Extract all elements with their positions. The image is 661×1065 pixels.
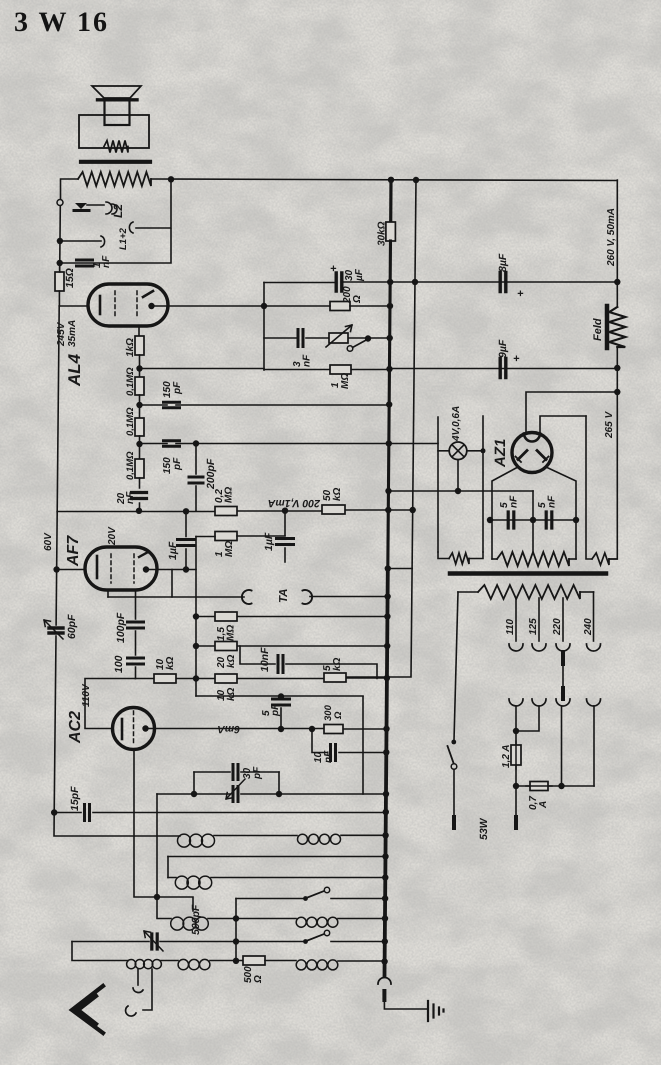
wire row6 <box>72 941 385 943</box>
switch row6 circle <box>324 930 329 935</box>
capacitor 150pF b <box>164 441 180 446</box>
wire ground link <box>384 1000 428 1009</box>
winding HT <box>492 552 576 566</box>
wire row4 <box>236 898 385 900</box>
wire left rail seg2 <box>59 206 62 270</box>
svg-text:245V: 245V <box>56 321 67 347</box>
svg-text:220: 220 <box>552 618 563 636</box>
rail2 lower <box>346 569 412 678</box>
label 150pF a <box>162 381 183 398</box>
junction anode/vert264 <box>261 303 267 309</box>
wire left rail corner <box>54 813 180 837</box>
wire row7 seg3 <box>210 960 243 962</box>
wire bus-rail2 y568 <box>388 568 412 570</box>
tube AZ1 envelope <box>512 433 552 473</box>
wire y786 line <box>516 785 594 787</box>
tap 240 lead <box>593 592 595 641</box>
svg-text:MΩ: MΩ <box>340 373 351 389</box>
tap 110 lead <box>515 598 517 641</box>
junction chain y368 <box>136 365 142 371</box>
svg-text:nF: nF <box>509 495 520 508</box>
label 300ohm <box>323 704 344 721</box>
wire AF7 grid caps <box>135 590 137 679</box>
wire x236 vert <box>235 919 237 962</box>
junction row7 bus <box>381 958 387 964</box>
switch row4 lever <box>305 891 324 899</box>
wire AF7 cathode line <box>57 569 85 571</box>
switch row4 circle <box>324 887 329 892</box>
wire AC2 grid drop <box>134 750 193 912</box>
junction y444 bus <box>386 440 392 446</box>
coil L1+2 arc lower <box>101 236 105 247</box>
label 125 <box>528 618 539 635</box>
junction row6 bus <box>382 938 388 944</box>
switch 53W lever <box>448 746 454 763</box>
resistor 01M a <box>135 377 144 395</box>
wire rail to AL4 <box>59 305 88 307</box>
tube AC2 anode node <box>142 725 148 731</box>
loudspeaker basket bar <box>98 98 138 101</box>
svg-text:AC2: AC2 <box>67 711 84 744</box>
label 01M c <box>125 451 136 480</box>
junction y678 x196 <box>193 675 199 681</box>
junction y617 bus <box>384 613 390 619</box>
coil row7 c <box>296 960 338 970</box>
svg-text:+: + <box>330 263 337 275</box>
tube AL4 envelope <box>88 284 168 326</box>
wire antenna lead2 <box>143 969 152 1010</box>
junction y511 bus <box>385 507 391 513</box>
svg-text:8µF: 8µF <box>497 253 509 272</box>
output transformer box <box>79 115 149 148</box>
label 10kohm a <box>155 656 176 670</box>
svg-text:L1+2: L1+2 <box>118 227 129 250</box>
svg-text:Ω: Ω <box>253 975 264 984</box>
junction anode x186 <box>183 566 189 572</box>
svg-text:Ω: Ω <box>352 295 363 304</box>
capacitor 30pF <box>233 765 238 780</box>
label 150pF b <box>162 457 183 474</box>
svg-text:Feld: Feld <box>592 318 604 341</box>
output transformer primary winding <box>78 172 151 186</box>
resistor 01M b <box>135 418 144 436</box>
resistor 1Mohm AF7 <box>215 532 237 541</box>
loudspeaker cone <box>92 86 141 98</box>
junction left rail y241 <box>57 238 63 244</box>
wire 1M line <box>196 535 285 538</box>
wire AZ1 fil right <box>540 416 586 434</box>
wire wiper link <box>87 204 104 206</box>
wire y491 line <box>389 490 534 492</box>
wire y444 line <box>140 443 389 445</box>
junction chain y510 <box>136 508 142 514</box>
resistor 500ohm <box>243 956 265 965</box>
svg-text:35mA: 35mA <box>67 320 78 347</box>
junction anode x281 <box>278 726 284 732</box>
socket hook 110 <box>509 699 523 706</box>
svg-text:kΩ: kΩ <box>332 487 343 501</box>
junction right rail y392 <box>614 389 620 395</box>
capacitor 8uF <box>500 273 506 292</box>
svg-text:125: 125 <box>528 618 539 635</box>
junction y511 rail2 <box>410 507 416 513</box>
junction y369 rail right <box>614 365 620 371</box>
capacitor 1uF a <box>178 540 195 546</box>
wire y617 line <box>196 616 387 618</box>
junction y794 bus <box>383 791 389 797</box>
tap 220 lead <box>562 598 564 641</box>
wire switch53 lower <box>453 770 455 817</box>
wire 30pF loop sides <box>194 772 279 794</box>
tube AF7 grid2 dashed <box>133 554 135 583</box>
label 15ohm <box>64 268 76 288</box>
coil row5 b <box>296 917 338 927</box>
wire left rail mid <box>57 306 59 512</box>
junction y306 bus <box>387 303 393 309</box>
bus upper segment <box>389 180 392 222</box>
antenna symbol <box>72 986 103 1033</box>
socket hook 220 <box>556 699 570 706</box>
junction y369 bus <box>386 366 392 372</box>
svg-text:100: 100 <box>113 655 125 673</box>
tube AF7 cathode <box>96 556 99 578</box>
tube AL4 cathode <box>99 296 102 314</box>
label 8uF plus <box>517 288 524 300</box>
svg-text:MΩ: MΩ <box>224 487 235 503</box>
junction lamp right <box>481 448 486 453</box>
label 3nF <box>292 354 313 367</box>
fuse 0.7A <box>526 782 552 791</box>
svg-text:200pF: 200pF <box>205 458 217 490</box>
wire chain seg2 <box>139 395 141 418</box>
socket hook 240 <box>587 699 601 706</box>
jack TA left <box>242 590 252 604</box>
label 5nF b <box>537 495 558 508</box>
coil L2 arcs <box>106 202 117 214</box>
svg-text:L2: L2 <box>111 204 125 218</box>
wire right rail lower <box>609 392 617 559</box>
wire chain seg3 <box>139 436 141 459</box>
label 100pF <box>115 612 127 643</box>
capacitor 5nF a <box>508 512 514 528</box>
junction rail2 y282 <box>412 279 418 285</box>
wire right rail upper <box>616 180 618 307</box>
svg-text:TA: TA <box>278 589 290 603</box>
wire 200pF drop <box>195 444 197 512</box>
coil row5 <box>171 917 209 930</box>
label 245V <box>56 321 67 347</box>
wire 10nF b line <box>312 729 386 753</box>
label 15pF <box>69 786 81 811</box>
wire y511 line <box>57 510 388 512</box>
label 35mA <box>67 320 78 347</box>
junction y338 wiper <box>365 335 371 341</box>
resistor 5kohm <box>324 673 346 682</box>
svg-text:A: A <box>538 801 549 809</box>
capacitor 150pF a <box>164 402 180 408</box>
junction row7 x236 <box>233 958 239 964</box>
capacitor 15pF <box>85 805 90 821</box>
svg-text:30kΩ: 30kΩ <box>377 221 388 246</box>
switch row6 dot <box>303 939 308 944</box>
label AZ1 <box>492 439 509 468</box>
label 1kohm <box>125 338 136 357</box>
svg-text:nF: nF <box>302 354 313 367</box>
capacitor 3nF <box>298 330 303 347</box>
label 60pF <box>66 614 78 639</box>
junction y511 1uFa <box>183 508 189 514</box>
label 265V <box>604 411 615 439</box>
wire 1nF line <box>62 229 171 263</box>
svg-text:9µF: 9µF <box>497 339 509 358</box>
switch 53W circle <box>451 764 457 770</box>
svg-text:20V: 20V <box>107 526 118 546</box>
wire AF7 grid loop <box>108 570 172 598</box>
label 01M a <box>125 367 136 396</box>
label 12A <box>501 744 512 768</box>
label 260V 50mA <box>606 208 617 267</box>
junction y511 x285 <box>282 508 288 514</box>
wire screen line y282 <box>264 282 334 284</box>
tube AF7 plate mark <box>139 552 148 557</box>
tube AC2 envelope <box>113 708 155 750</box>
wire row3 right <box>168 877 385 879</box>
capacitor 100pF b <box>128 658 144 664</box>
svg-text:kΩ: kΩ <box>226 687 237 701</box>
label 10nF a <box>259 647 271 672</box>
junction y646 bus <box>384 643 390 649</box>
voltage plug wire <box>562 664 564 688</box>
label 1uF a <box>167 541 179 560</box>
antenna coil <box>127 960 162 969</box>
junction row6 x236 <box>233 938 239 944</box>
voltage plug lower <box>561 688 565 699</box>
label 9uF <box>497 339 509 358</box>
capacitor 1nF <box>77 260 93 266</box>
svg-text:MΩ: MΩ <box>224 541 235 557</box>
junction chain y444 <box>136 441 142 447</box>
label 8uF <box>497 253 509 272</box>
label AF7 <box>65 535 82 567</box>
tube AZ1 filament notch <box>524 434 540 442</box>
svg-text:µF: µF <box>354 268 365 282</box>
label 200pF <box>205 458 217 490</box>
wire fil winding lead <box>586 416 592 559</box>
label 5pF <box>261 703 281 717</box>
wire socket240 down <box>593 706 595 786</box>
wire row7 seg2 <box>161 960 178 962</box>
winding 4V <box>438 552 483 564</box>
coil row7 b <box>178 959 210 969</box>
junction y405 bus <box>386 401 392 407</box>
wire AC2 cathode link <box>85 679 136 729</box>
terminal circle <box>57 200 63 206</box>
wire rail 15ohm <box>58 263 60 306</box>
wire y368 line <box>140 368 265 370</box>
field coil core bar <box>605 306 610 348</box>
junction top rail / rail2 <box>413 177 419 183</box>
wire fuse to junction <box>515 765 517 786</box>
pot wiper triangle <box>75 203 87 209</box>
wire L coil to rail2 <box>136 180 171 228</box>
winding primary <box>458 585 594 599</box>
resistor 50kohm <box>322 505 345 514</box>
mains plug dash b <box>514 817 518 828</box>
label 01M b <box>125 407 136 436</box>
junction y444 200pF <box>193 440 199 446</box>
fuse 1.2A <box>511 741 521 769</box>
svg-text:1µF: 1µF <box>167 541 179 560</box>
svg-text:kΩ: kΩ <box>165 656 176 670</box>
coil L1+2 arc upper <box>129 222 133 233</box>
label 30pF <box>242 766 263 780</box>
wire mains lead2 <box>515 786 517 816</box>
wire wiper to line <box>353 339 369 348</box>
svg-text:500pF: 500pF <box>190 904 202 935</box>
junction y646 x196 <box>193 643 199 649</box>
junction y696 x281 <box>278 693 284 699</box>
label 110V <box>81 683 92 707</box>
trimmer arrow 60pF <box>44 620 63 639</box>
wire row5 <box>157 897 385 919</box>
junction chain y405 <box>136 402 142 408</box>
label 200V 1mA <box>268 497 321 509</box>
resistor 1kohm <box>135 336 144 355</box>
tube AF7 envelope <box>85 547 157 590</box>
wire row2-row3 corner <box>167 857 169 878</box>
junction row1 bus <box>382 832 388 838</box>
label TA <box>278 589 290 603</box>
svg-text:265 V: 265 V <box>604 411 615 439</box>
tap hook 125 <box>532 644 546 651</box>
capacitor 10nF b <box>331 745 336 761</box>
label 02M <box>214 487 235 503</box>
wire y491 to 5nF <box>532 491 534 520</box>
resistor 15M <box>215 612 237 621</box>
wire 5nF line <box>490 519 576 521</box>
junction right rail 8uF line <box>614 279 620 285</box>
wire socket220 down <box>561 706 563 786</box>
wire AZ1 anode right <box>547 468 576 560</box>
wire row1 right <box>341 834 386 836</box>
svg-text:10nF: 10nF <box>259 647 271 672</box>
wire y511 to rail2 <box>388 509 412 511</box>
svg-text:nF: nF <box>547 495 558 508</box>
pot wiper bar <box>74 209 89 212</box>
svg-text:Ω: Ω <box>333 711 344 720</box>
label AL4 <box>65 353 84 387</box>
wire 30pF bottom <box>157 793 386 795</box>
wire socket110 down <box>515 706 517 745</box>
label 20nF <box>116 491 136 505</box>
wire AC2 anode line <box>146 728 387 731</box>
wire 30pF top <box>194 771 279 773</box>
label 53W <box>478 817 490 840</box>
wire left rail lowest <box>54 636 56 813</box>
label 07A <box>528 796 549 810</box>
wire y646 line <box>196 645 387 647</box>
rail2 vertical <box>412 180 416 569</box>
tap hook 240 <box>587 644 601 651</box>
junction x157 y897 <box>154 894 160 900</box>
svg-text:60pF: 60pF <box>66 614 78 639</box>
wire 1uF b drop <box>284 511 286 562</box>
svg-text:3 W 16: 3 W 16 <box>14 7 109 38</box>
label 200ohm <box>342 286 363 304</box>
rheostat arrow <box>326 325 352 347</box>
winding rect fil <box>592 553 617 565</box>
wire y664 line <box>240 646 377 679</box>
svg-text:pF: pF <box>252 766 263 780</box>
resistor 1Mohm tone <box>330 365 351 374</box>
wire top rail y180 <box>151 179 617 181</box>
resistor 15ohm <box>55 272 64 291</box>
wire AL4 anode line <box>152 305 265 307</box>
tube AL4 anode plate <box>143 291 153 297</box>
junction row5 bus <box>382 915 388 921</box>
junction row2 bus <box>382 853 388 859</box>
svg-text:pF: pF <box>270 703 281 717</box>
svg-text:kΩ: kΩ <box>332 657 343 671</box>
label 110 <box>505 619 516 635</box>
svg-text:pF: pF <box>172 381 183 395</box>
tap hook 110 <box>509 644 523 651</box>
junction 5nF right <box>573 517 579 523</box>
resistor 10kohm b <box>215 674 237 683</box>
resistor 01M c <box>135 459 144 478</box>
junction y491 lamp <box>455 488 461 494</box>
svg-text:60V: 60V <box>43 532 54 551</box>
wire 5nF center tap <box>532 520 534 552</box>
junction 5nF left <box>487 517 493 523</box>
label L2 <box>111 204 125 218</box>
capacitor 20nF <box>132 493 147 499</box>
label 100 <box>113 655 125 673</box>
junction 30pF left <box>191 791 197 797</box>
junction y752 bus <box>383 749 389 755</box>
wire chain seg1 <box>139 355 141 377</box>
junction y282 bus <box>387 279 393 285</box>
svg-text:4V,0,6A: 4V,0,6A <box>451 406 462 442</box>
jack antenna b <box>126 1006 136 1016</box>
label 20V <box>107 526 118 546</box>
bus bottom connector arc <box>378 978 391 984</box>
label 10kohm b <box>216 687 237 701</box>
svg-text:110V: 110V <box>81 683 92 707</box>
svg-text:15pF: 15pF <box>69 786 81 811</box>
label 20kohm <box>216 654 237 669</box>
capacitor 30pF trim <box>233 787 238 802</box>
label 1uF b <box>263 532 275 551</box>
wire row4 corner <box>235 899 237 919</box>
label 50kohm <box>322 487 343 501</box>
label Feld <box>592 318 604 341</box>
junction y786 left <box>513 783 519 789</box>
mains plug dash a <box>452 817 456 828</box>
junction 30pF right <box>276 791 282 797</box>
junction row4 bus <box>382 895 388 901</box>
wire AZ1 anode left <box>492 468 517 560</box>
trimmer arrow 500pF <box>144 931 163 951</box>
junction row3 bus <box>382 874 388 880</box>
label 1Mohm tone <box>330 373 351 389</box>
junction y729 bus <box>383 726 389 732</box>
label 60V <box>43 532 54 551</box>
trimmer arrow 30pF <box>226 779 245 799</box>
rheostat box <box>329 333 348 343</box>
svg-text:100pF: 100pF <box>115 612 127 643</box>
tube AC2 cathode <box>121 719 124 739</box>
